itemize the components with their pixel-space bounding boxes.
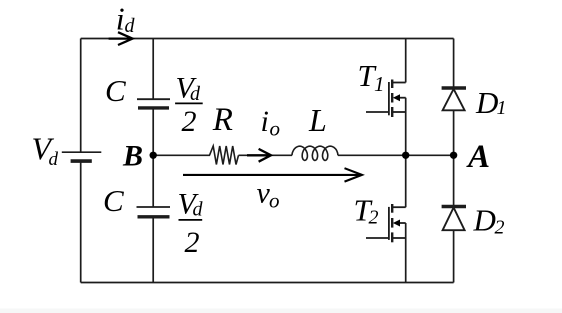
wire transistor rail bottom (405, 238, 407, 283)
svg-text:C: C (103, 183, 124, 218)
svg-text:C: C (105, 73, 126, 108)
svg-text:d: d (190, 83, 201, 105)
wire top (81, 38, 454, 40)
wire inductor to node A (338, 154, 454, 156)
svg-text:D: D (475, 85, 498, 120)
diode D2 (442, 207, 466, 231)
fraction bar lower (179, 219, 203, 221)
capacitor C1 thick plate (138, 106, 169, 109)
capacitor C1 thin plate (137, 98, 170, 100)
node B junction dot (150, 152, 157, 159)
svg-text:A: A (466, 139, 490, 175)
svg-text:L: L (308, 102, 327, 138)
svg-text:2: 2 (182, 105, 197, 138)
svg-text:1: 1 (374, 72, 385, 96)
battery Vd thick plate (71, 159, 92, 163)
wire capacitor rail lower (152, 217, 154, 283)
wire left rail upper (80, 39, 82, 153)
arrow io on mid wire (247, 154, 270, 156)
wire capacitor rail middle (152, 108, 154, 207)
svg-text:B: B (122, 140, 143, 173)
wire diode rail middle (453, 110, 455, 206)
bottom gray band (0, 309, 562, 313)
wire capacitor rail upper (152, 39, 154, 100)
resistor R zigzag (210, 146, 239, 165)
arrow vo (183, 174, 361, 176)
svg-text:2: 2 (185, 226, 200, 259)
battery Vd thin plate (62, 151, 102, 153)
fraction bar upper (175, 102, 203, 104)
svg-text:2: 2 (495, 217, 505, 239)
svg-text:o: o (269, 189, 280, 213)
diode D1 (442, 88, 466, 110)
wire diode rail top (453, 39, 455, 89)
svg-text:i: i (116, 1, 125, 37)
wire resistor to inductor (239, 154, 293, 156)
capacitor C2 thin plate (137, 206, 171, 208)
wire transistor rail middle (405, 112, 407, 207)
svg-text:1: 1 (497, 97, 507, 119)
transistor T1 (366, 80, 406, 118)
wire bottom (81, 282, 454, 284)
svg-text:d: d (125, 15, 136, 37)
node transistor-rail junction dot (402, 152, 409, 159)
svg-text:d: d (49, 149, 59, 170)
transistor T2 (366, 204, 406, 242)
svg-text:o: o (270, 117, 281, 141)
arrow id on top wire (109, 37, 131, 39)
svg-text:2: 2 (369, 207, 379, 229)
wire transistor rail top (405, 39, 407, 83)
svg-text:R: R (212, 102, 233, 138)
node A junction dot (450, 152, 457, 159)
svg-text:d: d (193, 198, 204, 220)
wire diode rail bottom (453, 230, 455, 282)
svg-text:D: D (473, 203, 496, 238)
wire output B to resistor (153, 154, 210, 156)
wire left rail lower (80, 161, 82, 282)
capacitor C2 thick plate (138, 215, 170, 218)
svg-text:i: i (261, 105, 269, 138)
inductor L coil (292, 146, 338, 160)
